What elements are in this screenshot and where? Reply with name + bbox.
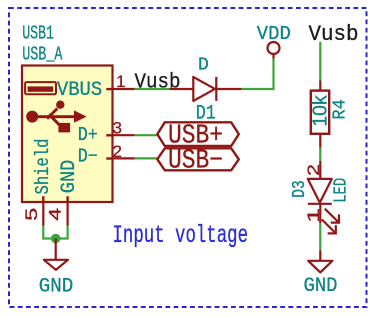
svg-text:3: 3 xyxy=(112,119,121,138)
wire pin1 to diode xyxy=(135,88,170,90)
LED D3 pin 2 xyxy=(319,161,321,179)
connector U body xyxy=(22,66,113,203)
wire pin4 to junction xyxy=(56,226,68,239)
svg-text:2: 2 xyxy=(304,164,323,176)
pin 1 stub xyxy=(113,88,135,90)
diode D1 pin 1 xyxy=(169,88,193,90)
power symbol VDD xyxy=(268,42,280,54)
svg-text:4: 4 xyxy=(46,208,65,221)
wire Vusb to R4 xyxy=(319,42,321,81)
global label USB+ xyxy=(157,122,239,152)
usb trident icon xyxy=(26,101,86,133)
wire diode to VDD xyxy=(241,59,273,90)
global label USB- xyxy=(157,147,239,177)
resistor R4 pin 1 xyxy=(319,81,321,91)
svg-text:D3: D3 xyxy=(290,180,310,198)
svg-text:Vusb: Vusb xyxy=(135,72,181,95)
resistor R4 pin 2 xyxy=(319,134,321,148)
svg-text:GND: GND xyxy=(39,275,74,298)
diode D1 pin 2 xyxy=(216,88,241,90)
ground symbol right xyxy=(308,261,332,273)
svg-text:1: 1 xyxy=(116,72,125,91)
LED emission arrows xyxy=(322,209,339,234)
gnd pin left xyxy=(55,239,57,260)
svg-text:VDD: VDD xyxy=(257,23,291,45)
svg-text:Shield: Shield xyxy=(32,139,54,195)
LED D3 body xyxy=(308,179,332,204)
svg-text:2: 2 xyxy=(112,142,121,161)
svg-text:Input voltage: Input voltage xyxy=(113,221,249,250)
usb plug icon xyxy=(25,82,56,94)
diode D1 body xyxy=(193,77,216,101)
wire LED to GND xyxy=(319,223,321,250)
svg-text:GND: GND xyxy=(58,160,81,194)
svg-text:D: D xyxy=(198,55,209,75)
svg-text:LED: LED xyxy=(331,178,351,203)
svg-text:Vusb: Vusb xyxy=(309,22,359,47)
wire R4 to LED xyxy=(319,148,321,161)
pin 4 stub xyxy=(66,202,68,226)
svg-text:5: 5 xyxy=(22,208,41,221)
svg-text:R4: R4 xyxy=(330,99,350,120)
pin 2 stub xyxy=(113,157,135,159)
pin 5 stub xyxy=(42,202,44,226)
svg-text:USB−: USB− xyxy=(168,147,223,177)
resistor R4 body xyxy=(311,91,329,134)
svg-text:VBUS: VBUS xyxy=(57,79,102,102)
junction xyxy=(51,234,61,244)
svg-text:USB_A: USB_A xyxy=(22,44,63,66)
VDD pin xyxy=(272,54,274,59)
svg-text:D−: D− xyxy=(78,145,98,167)
svg-text:D+: D+ xyxy=(78,124,98,146)
pin 3 stub xyxy=(113,134,135,136)
svg-text:10k: 10k xyxy=(310,94,332,126)
wire pin5 to junction xyxy=(43,226,55,239)
wire pin3 to USB+ xyxy=(135,134,159,136)
wire pin2 to USB- xyxy=(135,157,159,159)
gnd pin right xyxy=(319,250,321,261)
LED D3 pin 1 xyxy=(319,204,321,223)
ground symbol left xyxy=(44,260,68,270)
svg-text:GND: GND xyxy=(304,275,338,298)
svg-text:USB1: USB1 xyxy=(22,22,54,44)
pin inner ticks xyxy=(42,88,112,202)
